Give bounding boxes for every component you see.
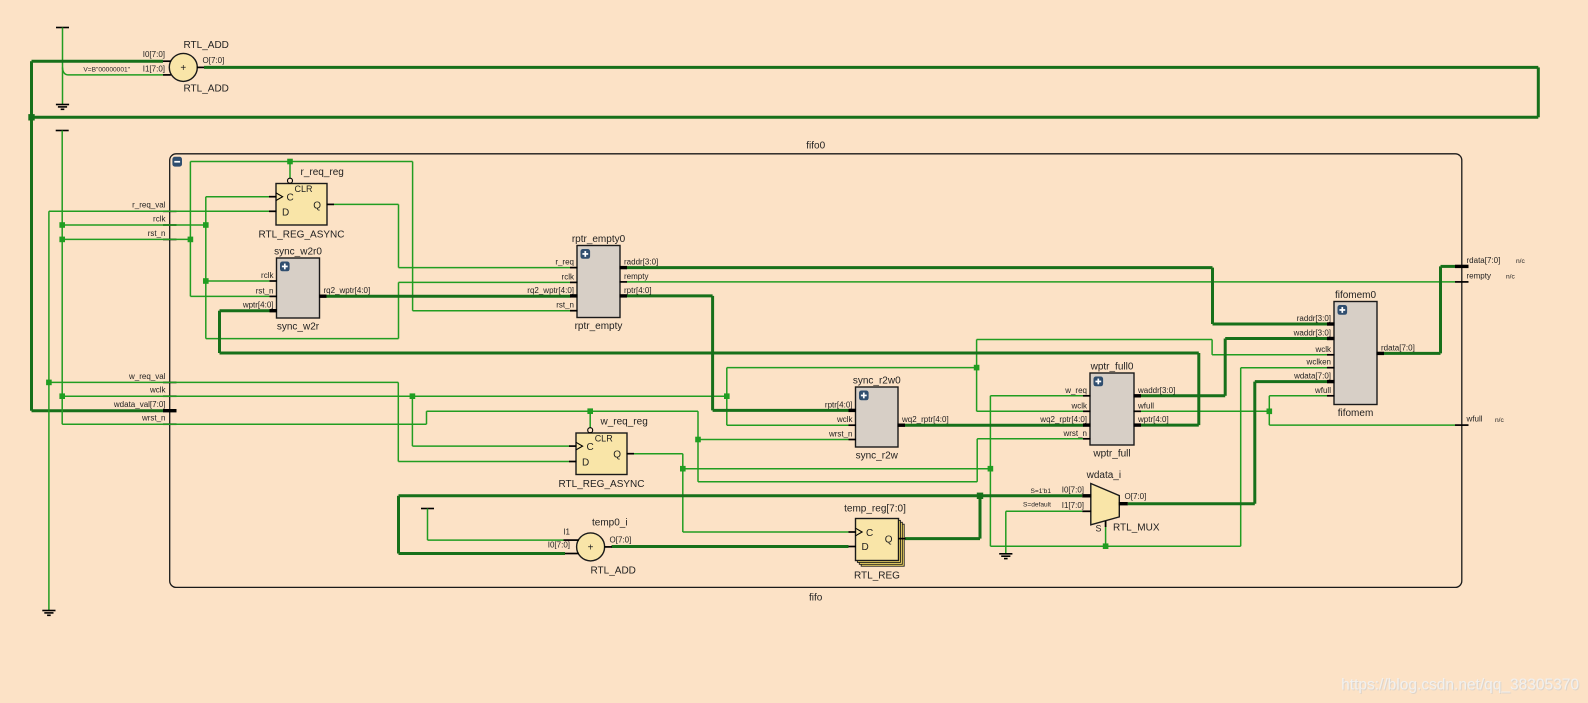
wire bus rdata	[1384, 266, 1455, 353]
pin temp0_i.I1	[564, 539, 579, 541]
port fifo0.wfull (output)	[1455, 415, 1504, 426]
svg-text:Q: Q	[885, 535, 893, 546]
wire net rst_n	[62, 162, 570, 311]
svg-text:r_req_reg: r_req_reg	[301, 167, 344, 178]
wire bus waddr	[1141, 339, 1327, 396]
svg-text:r_req: r_req	[555, 258, 574, 267]
pin sync_r2w0.wq2_rptr[4:0] (output)	[898, 415, 949, 425]
ground G2 (req_val)	[42, 611, 55, 616]
wire net rclk	[62, 197, 570, 339]
junction rst_n CLR tap	[287, 159, 293, 165]
pin sync_w2r0.rclk	[261, 271, 277, 281]
svg-text:CLR: CLR	[295, 184, 314, 194]
flip-flop r_req_reg (RTL_REG_ASYNC)	[259, 167, 345, 240]
wire const2 vertical (rclk/rst_n/wclk/wrst_n)	[61, 131, 63, 425]
pin wdata_i.S	[1105, 521, 1107, 527]
pin wdata_i.I0	[1082, 494, 1091, 497]
hierarchy box fifo0	[170, 154, 1462, 588]
svg-text:wptr[4:0]: wptr[4:0]	[1137, 415, 1169, 424]
wire const1 vertical	[62, 28, 64, 105]
svg-text:wptr[4:0]: wptr[4:0]	[242, 301, 274, 310]
junction wrst_n sync_r2w tap	[695, 437, 701, 443]
svg-text:wfull: wfull	[1466, 415, 1483, 424]
svg-text:sync_w2r: sync_w2r	[277, 322, 320, 333]
wire net r_req (reg Q to rptr_empty)	[334, 204, 571, 267]
svg-text:raddr[3:0]: raddr[3:0]	[624, 258, 658, 267]
pin temp0_i.O	[604, 546, 612, 548]
port fifo0.wdata_val[7:0] (input)	[113, 400, 177, 411]
port fifo0.rempty (output)	[1455, 271, 1515, 282]
hierarchical block wptr_full0 (wptr_full0)	[1090, 362, 1134, 460]
svg-text:sync_r2w: sync_r2w	[856, 451, 899, 462]
svg-text:rclk: rclk	[562, 272, 575, 281]
wire bus rptr	[627, 296, 849, 411]
svg-text:wptr_full: wptr_full	[1092, 449, 1130, 460]
svg-text:RTL_ADD: RTL_ADD	[184, 40, 229, 51]
wire bus wdata (mux out)	[1128, 382, 1328, 504]
svg-text:V=B"00000001": V=B"00000001"	[83, 67, 130, 74]
pin U_top.I1	[163, 74, 171, 76]
junction rclk at const2	[59, 222, 65, 228]
svg-text:Q: Q	[613, 450, 621, 461]
power/constant terminal const2 top bar	[56, 130, 69, 132]
svg-text:wfull: wfull	[1137, 401, 1154, 410]
pin wptr_full0.wclk	[1070, 401, 1090, 411]
svg-text:+: +	[588, 542, 594, 553]
svg-text:sync_r2w0: sync_r2w0	[853, 376, 901, 387]
svg-text:D: D	[582, 458, 589, 469]
wire bus rq2_wptr	[327, 295, 571, 298]
svg-text:temp_reg[7:0]: temp_reg[7:0]	[844, 503, 906, 514]
svg-text:rptr[4:0]: rptr[4:0]	[825, 400, 853, 409]
svg-text:Q: Q	[313, 200, 321, 211]
collapse button	[172, 157, 182, 167]
junction rst_n at const2	[59, 237, 65, 243]
wire bus raddr	[627, 268, 1328, 324]
port fifo0.rst_n (input)	[148, 229, 177, 240]
svg-text:S=1'b1: S=1'b1	[1030, 488, 1051, 495]
pin wptr_full0.waddr[3:0] (output)	[1134, 386, 1176, 396]
svg-text:rq2_wptr[4:0]: rq2_wptr[4:0]	[527, 286, 574, 295]
junction w_req_val	[46, 380, 52, 386]
flip-flop w_req_reg (RTL_REG_ASYNC)	[559, 417, 648, 490]
svg-text:I1: I1	[563, 528, 570, 537]
svg-text:rst_n: rst_n	[556, 301, 574, 310]
pin temp_reg.C	[849, 531, 857, 533]
svg-text:wfull: wfull	[1314, 386, 1331, 395]
svg-text:wclken: wclken	[1306, 358, 1331, 367]
junction rclk sync_w2r tap	[203, 278, 209, 284]
pin r_req_reg.D	[269, 210, 277, 212]
pin sync_w2r0.rq2_wptr[4:0] (output)	[319, 286, 370, 296]
svg-text:wq2_rptr[4:0]: wq2_rptr[4:0]	[1039, 415, 1087, 424]
pin wptr_full0.wq2_rptr[4:0]	[1039, 415, 1090, 425]
pin wptr_full0.wptr[4:0] (output)	[1134, 415, 1169, 425]
svg-text:RTL_ADD: RTL_ADD	[591, 566, 636, 577]
pin wptr_full0.w_req	[1064, 386, 1090, 396]
port fifo0.r_req_val (input)	[132, 201, 176, 212]
svg-text:n/c: n/c	[1495, 417, 1504, 424]
svg-text:rq2_wptr[4:0]: rq2_wptr[4:0]	[324, 286, 371, 295]
power/constant terminal const3 bar	[421, 508, 434, 510]
wire net temp adder I1	[428, 509, 564, 541]
junction rst_n split	[188, 237, 194, 243]
pin r_req_reg.Q	[327, 203, 335, 205]
svg-text:I1[7:0]: I1[7:0]	[1062, 501, 1084, 510]
pin fifomem0.wfull	[1314, 386, 1335, 396]
svg-text:wdata_val[7:0]: wdata_val[7:0]	[113, 400, 166, 409]
pin rptr_empty0.rptr[4:0] (output)	[620, 286, 652, 296]
svg-text:rdata[7:0]: rdata[7:0]	[1467, 256, 1501, 265]
svg-text:RTL_REG_ASYNC: RTL_REG_ASYNC	[559, 479, 645, 490]
svg-text:wdata_i: wdata_i	[1086, 470, 1121, 481]
svg-text:C: C	[866, 528, 873, 539]
svg-text:O[7:0]: O[7:0]	[610, 536, 632, 545]
junction wdata_val loop	[28, 114, 34, 120]
svg-text:fifo: fifo	[809, 593, 823, 604]
svg-text:w_req_val: w_req_val	[128, 372, 166, 381]
pin rptr_empty0.rclk	[562, 272, 578, 282]
svg-text:fifomem0: fifomem0	[1335, 290, 1377, 301]
svg-text:I0[7:0]: I0[7:0]	[1062, 485, 1084, 494]
svg-text:r_req_val: r_req_val	[132, 201, 166, 210]
svg-text:wclk: wclk	[836, 415, 854, 424]
svg-text:rptr[4:0]: rptr[4:0]	[624, 286, 652, 295]
adder temp0_i (RTL_ADD)	[577, 533, 605, 561]
port fifo0.rdata[7:0] (output)	[1455, 256, 1525, 267]
pin sync_r2w0.wclk	[836, 415, 856, 425]
wire net rempty	[627, 281, 1456, 283]
wire bus I0 feed	[32, 61, 164, 117]
hierarchical block sync_w2r0 (sync_w2r0)	[274, 247, 322, 333]
svg-text:rclk: rclk	[261, 271, 274, 280]
svg-text:D: D	[282, 207, 289, 218]
pin sync_w2r0.wptr[4:0]	[242, 301, 277, 311]
wire bus temp loop	[399, 496, 1083, 554]
pin temp0_i.I0	[565, 553, 579, 555]
svg-text:wrst_n: wrst_n	[1062, 429, 1087, 438]
svg-text:O[7:0]: O[7:0]	[1125, 492, 1147, 501]
svg-text:rempty: rempty	[1467, 271, 1491, 280]
pin rptr_empty0.rempty (output)	[620, 272, 649, 282]
svg-text:sync_w2r0: sync_w2r0	[274, 247, 322, 258]
junction wrst_n w_req_reg.CLR tap	[587, 408, 593, 414]
junction temp bus	[977, 493, 983, 499]
svg-text:w_req: w_req	[1064, 386, 1087, 395]
wire net r_req_val	[49, 210, 270, 212]
svg-text:rclk: rclk	[153, 214, 166, 223]
svg-text:C: C	[287, 193, 294, 204]
adder U_top (RTL_ADD)	[169, 53, 197, 81]
pin fifomem0.wdata[7:0]	[1293, 372, 1334, 382]
svg-text:https://blog.csdn.net/qq_38305: https://blog.csdn.net/qq_38305370	[1341, 677, 1579, 694]
svg-text:I1[7:0]: I1[7:0]	[143, 65, 165, 74]
wire net wfull	[1141, 396, 1455, 425]
wire net w_req (w_req_reg.Q)	[634, 368, 1328, 547]
pin w_req_reg.D	[569, 461, 577, 463]
svg-text:n/c: n/c	[1506, 274, 1515, 281]
port fifo0.wrst_n (input)	[141, 414, 177, 425]
ground G3 (mux I1)	[999, 554, 1012, 559]
junction wfull	[1267, 409, 1273, 415]
hierarchical block sync_r2w0 (sync_r2w0)	[853, 376, 901, 462]
port fifo0.w_req_val (input)	[128, 372, 176, 383]
junction w_req mux select	[1103, 543, 1109, 549]
svg-text:wrst_n: wrst_n	[141, 414, 166, 423]
ground G1 (under const1)	[56, 105, 69, 110]
svg-text:I0[7:0]: I0[7:0]	[548, 541, 570, 550]
svg-text:RTL_MUX: RTL_MUX	[1113, 523, 1160, 534]
svg-text:wptr_full0: wptr_full0	[1090, 362, 1134, 373]
svg-text:I0[7:0]: I0[7:0]	[143, 50, 165, 59]
pin sync_w2r0.rst_n	[256, 286, 277, 296]
power/constant terminal const1 top bar	[56, 27, 69, 29]
svg-text:S: S	[1096, 524, 1102, 534]
wire net mux I1 to ground	[1006, 511, 1083, 554]
svg-text:C: C	[587, 442, 594, 453]
wire net wclk	[62, 340, 1327, 447]
pin rptr_empty0.rq2_wptr[4:0]	[527, 286, 577, 296]
svg-text:wclk: wclk	[1070, 401, 1088, 410]
svg-text:n/c: n/c	[1516, 258, 1525, 265]
wire req_val vertical (r_req_val/w_req_val)	[48, 211, 50, 610]
junction w_req to wptr_full	[988, 466, 994, 472]
junction w_req branch	[680, 466, 686, 472]
pin wdata_i.O	[1119, 502, 1128, 505]
pin fifomem0.wclken	[1306, 358, 1335, 368]
svg-text:S=default: S=default	[1023, 502, 1051, 509]
pin r_req_reg.C	[269, 196, 277, 198]
svg-text:RTL_REG_ASYNC: RTL_REG_ASYNC	[259, 230, 345, 241]
svg-text:rst_n: rst_n	[148, 229, 166, 238]
pin w_req_reg.C	[569, 445, 577, 447]
pin wdata_i.I1	[1082, 510, 1091, 512]
port fifo0.wclk (input)	[149, 386, 177, 397]
svg-text:w_req_reg: w_req_reg	[600, 417, 648, 428]
pin sync_r2w0.wrst_n	[828, 430, 856, 440]
wire bus adder output loop	[32, 67, 1539, 117]
junction wclk w_req_reg.C tap	[410, 393, 416, 399]
label leader arc	[63, 68, 69, 75]
pin fifomem0.waddr[3:0]	[1293, 329, 1335, 339]
svg-text:waddr[3:0]: waddr[3:0]	[1137, 386, 1175, 395]
svg-text:O[7:0]: O[7:0]	[203, 56, 225, 65]
svg-text:rptr_empty: rptr_empty	[575, 321, 623, 332]
pin rptr_empty0.raddr[3:0] (output)	[620, 258, 659, 268]
pin temp_reg.Q	[898, 538, 906, 540]
svg-text:wdata[7:0]: wdata[7:0]	[1293, 372, 1331, 381]
pin fifomem0.rdata[7:0] (output)	[1377, 343, 1415, 353]
svg-text:wclk: wclk	[149, 386, 167, 395]
wire net w_req_val	[49, 382, 570, 461]
svg-text:wclk: wclk	[1314, 345, 1332, 354]
junction wclk sync_r2w tap	[724, 393, 730, 399]
svg-text:RTL_ADD: RTL_ADD	[184, 84, 229, 95]
svg-text:fifo0: fifo0	[806, 141, 825, 152]
junction wclk wptr_full tap	[974, 365, 980, 371]
register stack temp_reg[7:0] (RTL_REG)	[844, 503, 906, 581]
svg-text:raddr[3:0]: raddr[3:0]	[1297, 314, 1331, 323]
port fifo0.rclk (input)	[153, 214, 176, 225]
svg-text:+: +	[180, 63, 186, 74]
svg-text:rdata[7:0]: rdata[7:0]	[1381, 343, 1415, 352]
junction wclk at const2	[59, 393, 65, 399]
hierarchical block fifomem0 (fifomem0)	[1334, 290, 1377, 419]
svg-text:CLR: CLR	[595, 434, 614, 444]
svg-text:temp0_i: temp0_i	[592, 517, 628, 528]
wire net wrst_n	[62, 411, 1083, 482]
svg-text:rst_n: rst_n	[256, 286, 274, 295]
hierarchical block rptr_empty0 (rptr_empty0)	[572, 234, 626, 332]
pin sync_r2w0.rptr[4:0]	[825, 400, 856, 410]
pin fifomem0.raddr[3:0]	[1297, 314, 1335, 324]
svg-text:rempty: rempty	[624, 272, 648, 281]
pin U_top.O	[197, 66, 205, 68]
wire bus temp adder out to temp_reg.D	[612, 545, 849, 548]
pin temp_reg.D	[849, 546, 857, 548]
pin wptr_full0.wrst_n	[1062, 429, 1090, 439]
pin rptr_empty0.rst_n	[556, 301, 577, 311]
wire bus wdata_val down to port	[32, 117, 164, 410]
wire net wdata_val feedback loop (bus)	[69, 74, 164, 76]
pin w_req_reg.Q	[627, 453, 635, 455]
pin wptr_full0.wfull (output)	[1134, 401, 1155, 411]
pin fifomem0.wclk	[1314, 345, 1334, 355]
wire bus wptr	[220, 311, 1199, 425]
junction rclk split	[203, 222, 209, 228]
svg-text:fifomem: fifomem	[1338, 408, 1374, 419]
svg-text:wrst_n: wrst_n	[828, 430, 853, 439]
pin U_top.I0	[163, 60, 171, 62]
wire bus wq2_rptr	[905, 424, 1084, 427]
svg-text:wq2_rptr[4:0]: wq2_rptr[4:0]	[901, 415, 949, 424]
svg-text:RTL_REG: RTL_REG	[854, 570, 900, 581]
svg-text:D: D	[862, 542, 869, 553]
svg-text:rptr_empty0: rptr_empty0	[572, 234, 626, 245]
pin rptr_empty0.r_req	[555, 258, 577, 268]
svg-text:waddr[3:0]: waddr[3:0]	[1293, 329, 1331, 338]
mux wdata_i (RTL_MUX)	[1086, 470, 1160, 534]
